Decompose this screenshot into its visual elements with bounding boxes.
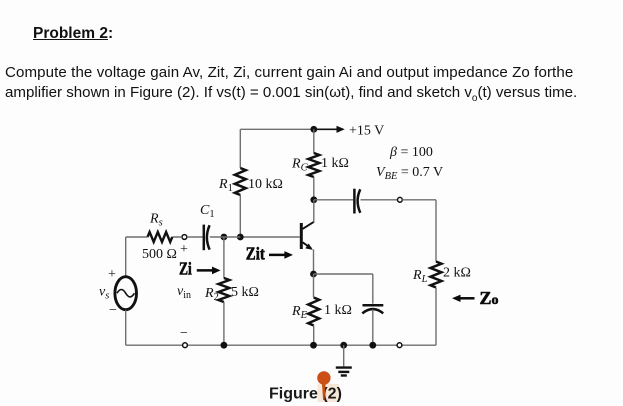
label VBE = 0.7 V [376, 165, 443, 182]
wire output to right column [402, 199, 436, 201]
node collector [310, 196, 317, 203]
node emitter [310, 271, 317, 278]
svg-text:RL: RL [412, 268, 428, 285]
svg-text:Rs: Rs [149, 211, 163, 228]
label Zo [480, 288, 499, 308]
svg-text:+: + [108, 267, 116, 282]
resistor R1 [235, 168, 246, 195]
label minus source [109, 303, 117, 318]
resistor R2 [218, 278, 229, 302]
label 10 kOhm [248, 177, 283, 192]
transistor Q1 [301, 222, 314, 250]
svg-text:−: − [180, 326, 188, 341]
capacitor CE bypass [362, 305, 383, 313]
wire emitter to bypass cap [314, 274, 373, 304]
arrow Zi [197, 267, 221, 275]
label RL [412, 268, 428, 285]
svg-text:Zit: Zit [246, 244, 265, 264]
label vs [99, 285, 109, 302]
label C1 [200, 203, 215, 220]
resistor RL [431, 262, 442, 288]
label plus at input [180, 242, 188, 257]
arrow Zit [269, 251, 293, 259]
svg-text:Figure (2): Figure (2) [269, 385, 342, 402]
svg-text:vs: vs [99, 285, 109, 302]
label R1 [218, 177, 233, 194]
wire collector to output cap [314, 199, 353, 201]
svg-text:1 kΩ: 1 kΩ [324, 303, 352, 318]
node bottom ground [340, 342, 347, 349]
wire CE bottom [372, 310, 374, 346]
node base-R2 junction [221, 234, 228, 241]
wire cap to output terminal [361, 199, 398, 201]
wire R1 top [239, 129, 241, 168]
wire source top [125, 237, 127, 277]
node bottom CE [369, 342, 376, 349]
label RE [291, 304, 308, 321]
wire R1 bottom [239, 195, 241, 237]
wire base [240, 236, 300, 238]
svg-text:5 kΩ: 5 kΩ [231, 285, 259, 300]
wire RL bottom [435, 288, 437, 346]
node base-R1 junction [237, 234, 244, 241]
svg-text:β = 100: β = 100 [389, 145, 433, 160]
wire RE bottom [313, 326, 315, 346]
wire RC bottom [313, 177, 315, 200]
highlight behind (2) [318, 384, 340, 402]
annotation pin [317, 371, 330, 400]
input open terminal [182, 235, 187, 240]
wire R2 bottom [223, 302, 225, 345]
svg-text:2 kΩ: 2 kΩ [443, 266, 471, 281]
wire bottom rail [126, 344, 436, 346]
svg-text:10 kΩ: 10 kΩ [248, 177, 283, 192]
svg-text:500 Ω: 500 Ω [142, 247, 177, 262]
node bottom R2 [221, 342, 228, 349]
output terminal open circle [398, 197, 403, 202]
label plus source [108, 267, 116, 282]
wire input section [210, 236, 241, 238]
label vin [177, 284, 191, 301]
svg-text:R1: R1 [218, 177, 233, 194]
svg-text:+15 V: +15 V [349, 124, 384, 139]
svg-text:C1: C1 [200, 203, 215, 220]
arrow Zo [452, 295, 475, 302]
source VS [115, 277, 137, 310]
capacitor C1 [204, 225, 210, 251]
label Zi [179, 259, 192, 279]
label +15 V [349, 124, 384, 139]
wire source bottom [125, 310, 127, 345]
wire Rs to terminal [172, 236, 202, 238]
svg-text:Zo: Zo [480, 288, 499, 308]
label 5 kOhm [231, 285, 259, 300]
wire R2 top [223, 237, 225, 278]
label R2 [204, 286, 219, 303]
label beta = 100 [389, 145, 433, 160]
label 1 kOhm RC [321, 156, 349, 171]
resistor RC [308, 153, 319, 177]
svg-text:−: − [109, 303, 117, 318]
label 500 Ohm [142, 247, 177, 262]
wire RC top [313, 129, 315, 153]
resistor Rs [148, 232, 173, 242]
label Zit [246, 244, 265, 264]
svg-text:VBE = 0.7 V: VBE = 0.7 V [376, 165, 443, 182]
svg-text:+: + [180, 242, 188, 257]
+15V supply arrow [316, 126, 345, 133]
bottom open terminal left [183, 343, 188, 348]
wire collector vertical [313, 200, 315, 223]
svg-text:RE: RE [291, 304, 308, 321]
ground [336, 345, 352, 375]
wire RE top [313, 274, 315, 298]
svg-text:R2: R2 [204, 286, 219, 303]
label Rs [149, 211, 163, 228]
wire source to Rs [126, 236, 148, 238]
node bottom RE [310, 342, 317, 349]
label Figure (2) [269, 385, 342, 402]
problem statement text [5, 63, 577, 109]
wire top rail [240, 128, 313, 130]
label minus at bottom terminal [180, 326, 188, 341]
capacitor C2 output coupling [354, 189, 360, 214]
label RC [291, 157, 309, 174]
node top of RC [310, 126, 317, 133]
wire RL top [435, 200, 437, 262]
svg-text:Zi: Zi [179, 259, 192, 279]
label 1 kOhm RE [324, 303, 352, 318]
title Problem 2 [33, 25, 113, 43]
wire emitter vertical [313, 250, 315, 275]
bottom open terminal right [397, 343, 402, 348]
svg-text:1 kΩ: 1 kΩ [321, 156, 349, 171]
label 2 kOhm [443, 266, 471, 281]
svg-text:vin: vin [177, 284, 191, 301]
resistor RE [308, 298, 319, 326]
